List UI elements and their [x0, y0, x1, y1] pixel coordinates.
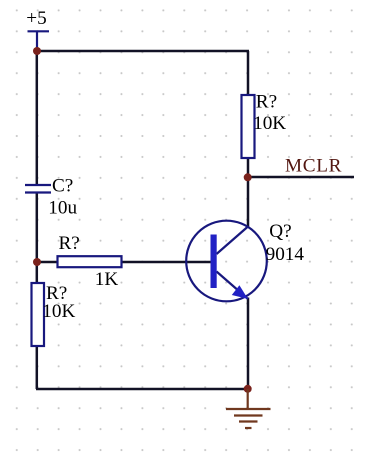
svg-text:Q?: Q?: [269, 221, 291, 242]
svg-text:+5: +5: [26, 8, 46, 29]
svg-text:9014: 9014: [266, 244, 305, 265]
svg-text:10K: 10K: [253, 113, 286, 134]
svg-text:10u: 10u: [48, 198, 77, 219]
svg-text:R?: R?: [59, 233, 80, 254]
svg-text:R?: R?: [256, 92, 277, 113]
svg-text:C?: C?: [52, 176, 73, 197]
svg-text:1K: 1K: [95, 269, 119, 290]
svg-text:MCLR: MCLR: [285, 156, 342, 177]
svg-text:10K: 10K: [42, 301, 75, 322]
